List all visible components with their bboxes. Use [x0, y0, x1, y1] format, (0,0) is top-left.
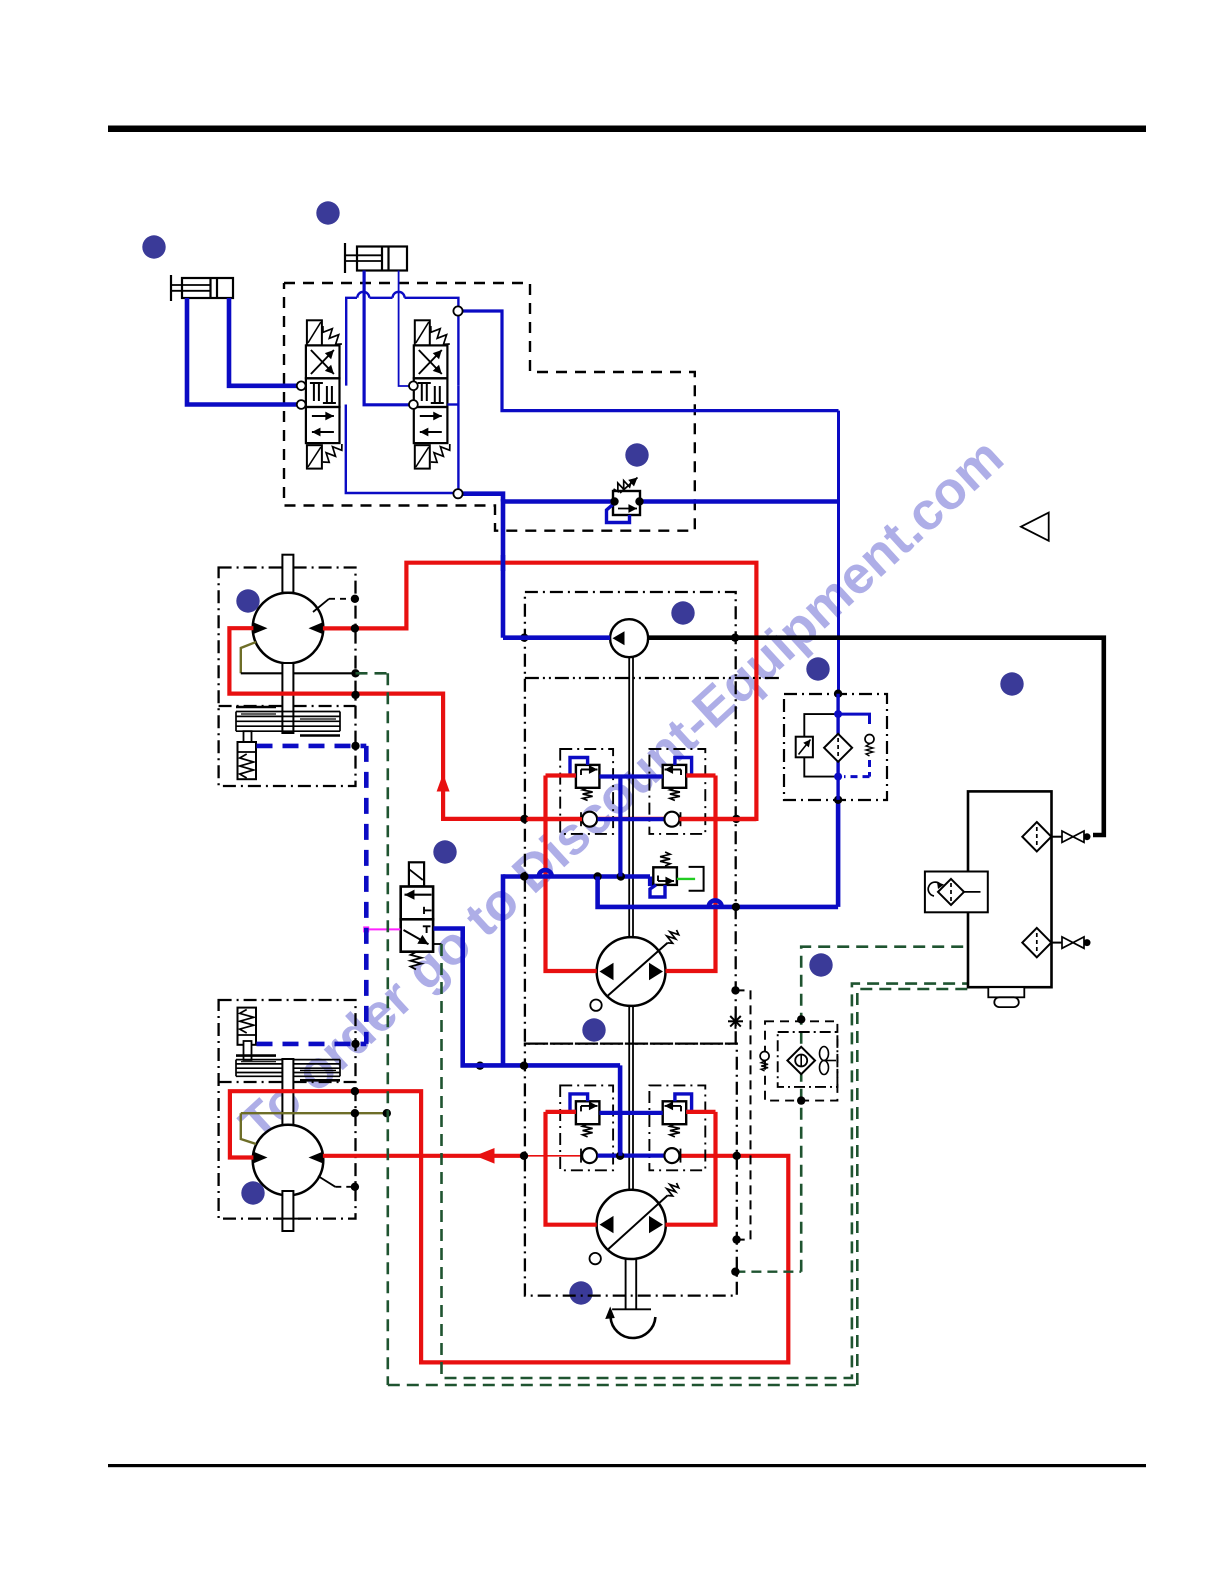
wire red M2 feed from check valves	[323, 1154, 524, 1158]
cylinder C2 body	[357, 247, 407, 271]
pump P2 displacement arrow	[607, 1196, 668, 1251]
wire top manifold valve V1 port A to outlet	[346, 298, 357, 386]
wire cylinder C1 rod-port to valve V1 port B	[187, 298, 299, 405]
callout dot 9	[582, 1018, 605, 1041]
wire charge to flushing relief P1 (blue vertical)	[618, 777, 622, 877]
drain loop outer bottom	[388, 1384, 858, 1387]
junction dot charge P1 box edge	[520, 872, 528, 880]
wire charge tap P1 (blue)	[503, 874, 650, 879]
charge relief valve CR1 pilot loop	[650, 885, 665, 897]
wire brake release vertical (blue dashed)	[364, 746, 369, 1044]
junction dot charge inlet at P1 case	[520, 634, 528, 642]
cylinder C2 rod	[345, 254, 382, 256]
pump P1 circle	[597, 937, 666, 1006]
motor M2 case drain	[318, 1176, 335, 1187]
P2 right relief valve	[663, 1101, 687, 1124]
brake B2 spring	[240, 1010, 254, 1034]
P2 right relief sub-box	[649, 1085, 705, 1170]
P2 right relief spring	[670, 1124, 680, 1137]
callout dot 10	[809, 953, 832, 976]
brake B2 cylinder	[238, 1008, 257, 1045]
P1 right relief pilot loop	[675, 758, 692, 776]
P2 left relief pilot loop	[570, 1094, 588, 1112]
junction dot red M2 box right	[733, 1152, 741, 1160]
motor M2 shaft bottom	[282, 1191, 293, 1231]
P2 left relief valve	[576, 1101, 600, 1124]
pump group P1 enclosure (dash-dot)	[525, 592, 736, 1044]
wire charge main vertical lower	[501, 874, 506, 1065]
junction dot charge P2 box edge	[520, 1062, 528, 1070]
callout dot 6	[806, 657, 829, 680]
motor M1 shaft to gearbox	[282, 663, 293, 733]
junction dot red M1 lower crossing	[351, 691, 359, 699]
wire red loop motor M2	[230, 1091, 788, 1362]
motor M1 shaft top	[282, 555, 293, 593]
junction dot charge P1 tee	[617, 872, 625, 880]
charge relief valve CR1 body	[653, 867, 677, 885]
P1 left relief sub-box	[560, 749, 613, 834]
brake B1 cylinder	[238, 742, 257, 779]
filter enclosure (dash-dot)	[784, 694, 887, 800]
wire red P2 left riser	[546, 1112, 597, 1225]
wire red loop motor M1	[229, 563, 756, 819]
wire valve V2 port B to right vertical	[447, 403, 458, 405]
port circle valve V1 B	[297, 400, 306, 409]
P1 left check valve	[582, 812, 597, 827]
junction dot red M2 top crossing	[351, 1087, 359, 1095]
relief valve RV1 adjust arrow	[620, 478, 638, 494]
cylinder C1 clevis	[170, 275, 172, 301]
wire red P1 check left	[527, 817, 583, 821]
port circle valve V2 A	[409, 381, 418, 390]
junction dot filter tee top	[834, 710, 842, 718]
P1 right relief valve	[663, 765, 687, 788]
motor M1 right arrow	[309, 622, 323, 634]
motor M1 gearbox divider	[219, 705, 356, 707]
wire filter return branch	[598, 877, 839, 907]
drain M1 link green	[356, 672, 388, 675]
wire valve block outlet B / tank main	[463, 494, 504, 502]
wire red P1 right riser	[666, 776, 716, 972]
cylinder C2 piston	[381, 247, 383, 271]
junction dot brake B2 port	[351, 1040, 359, 1048]
junction dot P1 case link	[731, 986, 739, 994]
relief valve RV1 inner arrow	[618, 508, 637, 510]
motor M2 shaft from gearbox	[282, 1059, 293, 1129]
wire charge inlet from main	[503, 635, 610, 640]
wire BV pilot magenta	[366, 928, 400, 930]
tank return diffuser arrow	[928, 882, 940, 896]
P2 left check valve	[582, 1148, 597, 1163]
tank return diffuser diamond	[938, 879, 964, 905]
junction dot filter branch at P1 case	[732, 903, 740, 911]
solenoid valve V2 top spring	[431, 326, 450, 344]
P1 check crossline blue	[598, 817, 664, 821]
port circle valve V1 A	[297, 381, 306, 390]
motor M1 circle	[253, 593, 324, 664]
P2 red stub right relief	[686, 1110, 715, 1114]
filter check branch blue	[838, 714, 869, 724]
junction dot suction at P1 case	[731, 634, 739, 642]
P2 check crossline blue	[598, 1153, 664, 1157]
junction dot RV1 right	[635, 497, 643, 505]
P2 right check valve	[664, 1148, 679, 1163]
valve block enclosure (dashed)	[284, 283, 695, 531]
pump group P2 enclosure (dash-dot)	[525, 1044, 737, 1296]
motor M1 two-speed olive link	[241, 642, 256, 673]
wire cylinder C2 right port to valve V2 port A	[399, 271, 411, 387]
motor M1 left arrow	[254, 622, 268, 634]
charge relief CR1 case bracket	[689, 867, 704, 891]
wire charge main vertical upper	[501, 499, 506, 638]
wire valve block outlet A to pressure main	[462, 311, 839, 411]
wire tank main horizontal to filter drop	[503, 499, 839, 504]
callout dot 7	[1000, 672, 1023, 695]
P1 left relief spring	[583, 788, 593, 801]
wire filter internal vertical	[836, 694, 839, 736]
cylinder C1 piston	[209, 278, 211, 298]
input rotation arrow	[611, 1317, 656, 1338]
junction dot P2 case link	[732, 1235, 740, 1243]
pump P2 right arrow	[649, 1216, 663, 1233]
junction dot filter bottom	[834, 796, 842, 804]
wire charge pump suction (black)	[648, 638, 1104, 835]
pump P1 left arrow	[600, 963, 614, 980]
drain loop outer left vertical	[386, 673, 389, 1385]
solenoid valve V1 center section (closed)	[306, 378, 340, 407]
pump P1 right arrow	[649, 963, 663, 980]
port circle valve V2 B	[409, 400, 418, 409]
drain loop inner from valve BV	[442, 944, 969, 1378]
pump P1 displacement handle circle	[590, 1000, 601, 1011]
junction dot red M1 right port	[351, 624, 359, 632]
shaft P2 to input	[625, 1259, 627, 1309]
solenoid valve V1 top solenoid	[307, 320, 322, 345]
junction dot red pump box left	[520, 815, 528, 823]
gearbox GB1 disc pack	[236, 711, 340, 713]
P1 right check valve	[664, 812, 679, 827]
case link P1-P2 dashed	[736, 990, 751, 1239]
solenoid valve V2 top solenoid	[415, 320, 430, 345]
tank lower strainer	[1022, 928, 1051, 957]
callout dot 8	[433, 840, 456, 863]
cylinder C2 clevis	[344, 243, 346, 273]
relief valve RV1 spring	[614, 481, 632, 492]
pump P2 left arrow	[600, 1216, 614, 1233]
motor M2 circle	[253, 1125, 324, 1196]
wire main blue over red crossing	[501, 555, 506, 571]
wire BV outlet blue	[434, 929, 504, 1066]
junction dot filter top	[834, 690, 842, 698]
cooler bypass check	[760, 1052, 769, 1061]
brake B2 rod	[244, 1041, 252, 1060]
drain P2 to cooler (black dashed)	[735, 1270, 801, 1272]
gearbox GB2 disc pack	[236, 1059, 340, 1061]
solenoid valve V2 bottom section (parallel arrows)	[414, 407, 448, 443]
cooler enclosure outer dashed	[765, 1021, 837, 1100]
pump P1 control spring	[667, 930, 679, 943]
junction dot cooler top	[797, 1015, 805, 1023]
junction dot filter tee bottom	[834, 773, 842, 781]
cylinder C1 body	[182, 278, 233, 298]
wire filter riser lower	[836, 800, 841, 907]
charge relief valve CR1 spring	[660, 852, 670, 866]
junction dot charge filter branch tee	[593, 872, 601, 880]
filter diamond	[824, 734, 852, 762]
wire red P2 right riser	[666, 1112, 716, 1225]
cooler enclosure inner dash-dot	[778, 1032, 838, 1087]
P2 right relief pilot loop	[675, 1094, 692, 1112]
P1 red stub left relief	[546, 773, 576, 777]
callout dot 2	[316, 201, 339, 224]
brake B1 spring	[240, 754, 254, 778]
wire valve V2 right ports vertical	[457, 386, 459, 489]
tank upper disconnect	[1052, 836, 1063, 838]
revision triangle	[1021, 513, 1049, 541]
P2 red stub left relief	[546, 1110, 576, 1114]
callout dot 3	[625, 443, 648, 466]
solenoid valve V1 bottom spring	[323, 444, 342, 462]
filter bypass left branch	[804, 714, 838, 737]
pump P2 control spring	[667, 1183, 679, 1196]
motor M2 right arrow	[309, 1152, 323, 1164]
filter check ball	[865, 735, 874, 744]
P2 left relief spring	[583, 1124, 593, 1137]
junction dot motor M2 drain port	[351, 1183, 359, 1191]
tank lower disconnect	[1052, 942, 1063, 944]
motor M2 olive two-speed link	[241, 1113, 256, 1144]
junction dot charge P2 tee	[616, 1152, 624, 1160]
pump group P1 internal divider (dash-dot-dot)	[525, 677, 781, 679]
relief valve RV1 body	[613, 491, 640, 515]
callout dot 1	[142, 235, 165, 258]
wire BV drain stub	[434, 943, 442, 945]
P1 red stub right relief	[686, 773, 715, 777]
motor M2 gearbox divider	[219, 1081, 356, 1083]
wire charge down corner to P2	[503, 1063, 620, 1068]
pump P2 displacement handle circle	[590, 1253, 601, 1264]
solenoid valve V2 bottom solenoid	[415, 445, 430, 468]
P1 right relief spring	[670, 788, 680, 801]
solenoid valve V2 bottom spring	[431, 444, 450, 462]
junction dot M1 lube port	[351, 669, 359, 677]
cylinder C1 rod	[172, 284, 211, 286]
motor M2 olive line to drain loop	[241, 1112, 387, 1114]
wire charge drop to P2 check line	[618, 1065, 623, 1155]
port circle manifold outlet B	[453, 489, 462, 498]
wire cylinder C2 left port to valve V2 port B	[364, 271, 411, 405]
pump P1 displacement arrow	[608, 943, 668, 996]
junction dot brake B1 port	[351, 742, 359, 750]
brake B1 rod	[244, 731, 252, 745]
motor M1 gear lube line	[241, 672, 356, 674]
wire filter drop vertical	[837, 411, 840, 694]
P1 right relief sub-box	[649, 749, 705, 834]
wire charge relief CR1 inlet	[650, 877, 656, 885]
wire cylinder C1 cap-port to valve V1 port A	[229, 298, 299, 386]
solenoid valve V1 top section (crossed arrows)	[306, 345, 340, 378]
flow arrow red M1 feed	[437, 774, 450, 792]
wire charge to flushing relief P2 (blue vertical)	[618, 1113, 622, 1156]
2-position valve BV body upper	[401, 887, 433, 920]
junction dot red pump box right	[732, 815, 740, 823]
motor M1 case drain	[313, 599, 329, 612]
shaft charge pump to P1	[628, 657, 630, 937]
shaft P1 to P2	[628, 1006, 630, 1190]
junction dot M2 olive to drain loop	[383, 1109, 391, 1117]
charge pump CP circle	[610, 619, 648, 657]
orifice star on P1 case	[728, 1014, 743, 1029]
cooler riser green dashed	[801, 947, 968, 1272]
reservoir tank body	[968, 791, 1052, 987]
relief valve RV1 bypass loop	[607, 503, 630, 523]
cooler fan	[820, 1047, 829, 1061]
P1 relief crossline blue	[599, 774, 662, 778]
motor M2 left arrow	[254, 1152, 268, 1164]
tank return diffuser box	[925, 872, 988, 913]
flow arrow red M2 feed	[475, 1148, 495, 1164]
solenoid valve V1 bottom section (parallel arrows)	[306, 407, 340, 443]
2-position valve BV solenoid	[409, 862, 424, 886]
wire red M2 thin link	[524, 1155, 581, 1157]
pump P2 circle	[597, 1190, 666, 1259]
tank drain plug	[988, 987, 1024, 997]
P1 left relief pilot loop	[570, 758, 588, 776]
charge relief CR1 drain green	[677, 878, 695, 880]
callout dot 5	[671, 601, 694, 624]
page bottom rule	[108, 1464, 1146, 1467]
tank suction strainer upper	[1022, 822, 1051, 851]
cooler diamond	[787, 1047, 815, 1074]
junction dot motor M1 drain port	[351, 595, 359, 603]
junction dot M2 olive box port	[351, 1109, 359, 1117]
solenoid valve V1 top spring	[323, 326, 342, 344]
solenoid valve V2 center section (closed)	[414, 378, 448, 407]
motor M2 enclosure (dash-dot)	[219, 1000, 356, 1219]
page top rule	[108, 126, 1146, 133]
callout dot 12	[569, 1281, 592, 1304]
junction dot RV1 left	[610, 497, 618, 505]
wire brake B1 release line (blue dashed)	[257, 744, 367, 749]
junction dot cooler bottom	[797, 1096, 805, 1104]
wire valve V1 port B down to bottom manifold	[346, 405, 453, 494]
2-position valve BV spring	[411, 952, 422, 969]
port circle manifold outlet A	[453, 306, 462, 315]
junction dot P2 cooler drain	[731, 1268, 739, 1276]
P1 left relief valve	[576, 765, 600, 788]
P2 relief crossline blue	[599, 1111, 662, 1115]
wire red P1 left riser	[546, 776, 597, 972]
drain loop outer right riser	[857, 989, 968, 1385]
wire brake B2 release line (blue dashed)	[257, 1042, 367, 1047]
callout dot 11	[241, 1181, 264, 1204]
filter bypass valve	[796, 737, 813, 758]
2-position valve BV body lower	[401, 919, 433, 951]
P2 left relief sub-box	[560, 1085, 613, 1170]
junction dot red M2 thick end	[520, 1152, 528, 1160]
motor M1 enclosure (dash-dot)	[219, 568, 356, 787]
wire red P1 check right	[680, 817, 757, 821]
callout dot 4	[236, 589, 259, 612]
junction dot charge line x480	[476, 1062, 484, 1070]
solenoid valve V1 bottom solenoid	[307, 445, 322, 468]
charge pump CP triangle	[613, 631, 625, 645]
solenoid valve V2 top section (crossed arrows)	[414, 345, 448, 378]
